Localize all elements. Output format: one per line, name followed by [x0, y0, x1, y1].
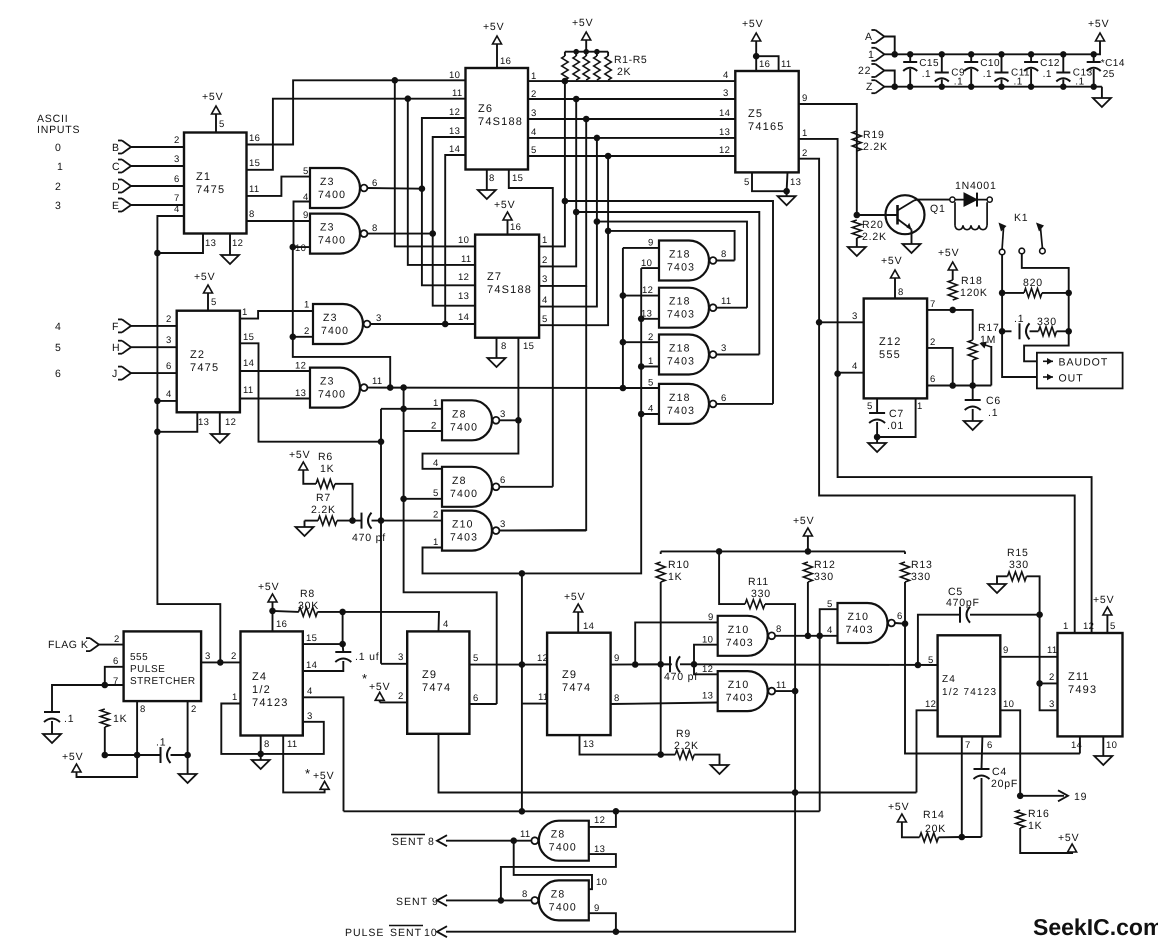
- junction netB sent: [519, 808, 526, 815]
- junction out11 column: [400, 384, 407, 391]
- text input bit 4: [55, 321, 62, 333]
- wire R7 left lead: [305, 520, 319, 522]
- svg-text:2: 2: [191, 704, 197, 715]
- junction R10 470pf: [657, 661, 664, 668]
- junction netB Z18b: [638, 316, 645, 323]
- svg-text:1: 1: [648, 356, 654, 367]
- wire netB to Z18d pin4: [641, 413, 659, 415]
- svg-text:13: 13: [295, 388, 306, 399]
- wire rail to R13: [904, 551, 906, 554]
- svg-text:12: 12: [719, 145, 730, 156]
- resistor 1K pulse stretcher: [100, 709, 127, 727]
- text input bit 5: [55, 342, 62, 354]
- junction R6/R7: [349, 517, 356, 524]
- wire netB to Z18b pin13: [641, 318, 659, 320]
- pin numbers Z10c: [827, 599, 903, 636]
- wire cap left lead 470pf shift: [635, 663, 670, 665]
- junction R8 cap tap: [339, 609, 346, 616]
- svg-text:330: 330: [1009, 559, 1029, 571]
- wire netA to Z18b pin12: [623, 295, 659, 297]
- wire +5V to Z2 pin5: [207, 293, 209, 311]
- svg-text:A: A: [865, 31, 873, 43]
- pin numbers Z10a: [433, 510, 506, 549]
- wire R7 to cap: [337, 520, 362, 522]
- wire R1 column to Z7 pin1: [539, 81, 565, 246]
- one-shot Z4 1/2 74123 right: [938, 635, 1001, 736]
- svg-text:8: 8: [501, 341, 507, 352]
- wire Z5 pin1 down: [799, 139, 1092, 633]
- wire data4 Z6-4 to Z5-13: [528, 137, 735, 139]
- flip-flop Z9 second: [547, 633, 611, 735]
- svg-text:.1: .1: [156, 737, 166, 749]
- svg-text:9: 9: [648, 238, 654, 249]
- resistor R16 1K: [1016, 808, 1050, 832]
- +5V supply Z12: [881, 255, 902, 278]
- junction R2 bottom: [573, 96, 580, 103]
- +5V supply pulse stretcher: [62, 751, 83, 772]
- wire Z10c pin5 tie: [820, 609, 838, 811]
- wire +5V to Z6 pin16: [496, 44, 498, 68]
- svg-text:7403: 7403: [667, 405, 695, 417]
- svg-text:5: 5: [542, 314, 548, 325]
- svg-text:Z18: Z18: [669, 296, 691, 308]
- wire R5 column to Z7 pin5: [539, 156, 608, 325]
- svg-text:R7: R7: [316, 492, 331, 504]
- svg-text:5: 5: [303, 166, 309, 177]
- wire Z3b out8 to column: [367, 233, 432, 235]
- +5V supply starred Z9a: [369, 681, 390, 700]
- svg-text:7400: 7400: [321, 325, 349, 337]
- wire Z9b pin8 to Z10c pin13: [611, 703, 718, 705]
- wire R11 to out11 column: [446, 604, 795, 932]
- arrow SENT 8: [437, 835, 447, 846]
- wire feedback column XL: [293, 247, 390, 388]
- junction sent set netB: [613, 808, 620, 815]
- junction R19/R20/Q1 base: [854, 212, 861, 219]
- junction 820 right: [1065, 290, 1072, 297]
- nand Z8a: [442, 400, 499, 440]
- text K1: [1014, 212, 1028, 224]
- wire Z10b out8: [775, 635, 837, 637]
- pin numbers Z5 left: [719, 70, 730, 156]
- wire Z6 pin12 column: [422, 118, 475, 285]
- svg-text:FLAG K: FLAG K: [48, 639, 88, 651]
- wire H to Z2 pin3: [131, 346, 177, 348]
- svg-text:12: 12: [1083, 621, 1094, 632]
- svg-text:30K: 30K: [298, 600, 319, 612]
- text input bit 2: [55, 181, 62, 193]
- svg-text:2: 2: [231, 651, 237, 662]
- wire strobe jog to Z8a pin1: [381, 408, 404, 410]
- wire column Z1-4 to Z2 and trigger: [157, 253, 220, 662]
- wire Z10b pin10: [694, 645, 718, 665]
- pin numbers Z6 right: [531, 71, 537, 156]
- svg-text:5: 5: [744, 177, 750, 188]
- wire R12 column: [807, 582, 809, 636]
- svg-text:5: 5: [867, 401, 873, 412]
- pin numbers Z6 left: [449, 70, 462, 155]
- wire Z1 pin13 to node: [157, 234, 203, 254]
- wire Z12 pin2 jog: [927, 348, 953, 386]
- svg-text:R19: R19: [863, 129, 885, 141]
- wire Z4R pin9 to Z11 pin11: [1000, 656, 1057, 658]
- resistor bank R1-R5 2K: [562, 49, 648, 80]
- text input bit 0: [55, 142, 62, 154]
- wire 820 right lead: [1042, 292, 1069, 294]
- svg-text:11: 11: [538, 692, 548, 703]
- wire Z6 pin15 to Z8b out column: [509, 170, 553, 487]
- wire E to Z1 pin7: [131, 204, 184, 206]
- flip-flop Z9 first: [407, 631, 469, 733]
- svg-text:7403: 7403: [726, 637, 754, 649]
- junction 820 left: [999, 290, 1006, 297]
- svg-text:Z18: Z18: [669, 249, 691, 261]
- svg-text:7400: 7400: [450, 421, 478, 433]
- wire Q1 base: [857, 214, 898, 216]
- svg-text:7400: 7400: [318, 189, 346, 201]
- svg-text:12: 12: [295, 361, 306, 372]
- wire C4 bottom: [981, 778, 983, 837]
- arrow output 19: [1058, 790, 1068, 801]
- svg-text:22: 22: [858, 65, 871, 77]
- wire cap to ground: [51, 721, 53, 730]
- junction shift node: [519, 661, 526, 668]
- svg-text:14: 14: [458, 312, 469, 323]
- resistor R6 1K: [316, 451, 335, 488]
- wire netA to Z18c pin2: [623, 341, 659, 343]
- capacitor 470pf shift: [664, 656, 698, 683]
- svg-text:16: 16: [276, 619, 287, 630]
- wire ground to R7: [304, 521, 306, 524]
- resistor R7 2.2K: [311, 492, 337, 525]
- svg-text:+5V: +5V: [564, 591, 585, 603]
- wire Z5 pin2 down: [799, 159, 1075, 633]
- svg-text:Z6: Z6: [478, 103, 493, 115]
- svg-text:4: 4: [542, 295, 548, 306]
- svg-text:+5V: +5V: [62, 751, 83, 763]
- svg-text:74S188: 74S188: [478, 116, 523, 128]
- wire Z4L pin1 bracket: [221, 704, 260, 754]
- transistor Q1: [886, 195, 946, 234]
- svg-text:2K: 2K: [617, 66, 631, 78]
- svg-text:3: 3: [376, 313, 382, 324]
- wire Z10a pin1 bracket: [423, 547, 443, 549]
- svg-text:Z8: Z8: [452, 475, 467, 487]
- svg-text:.1: .1: [1043, 69, 1052, 80]
- svg-text:5: 5: [928, 655, 934, 666]
- svg-text:7400: 7400: [318, 389, 346, 401]
- svg-text:+5V: +5V: [369, 681, 390, 693]
- wire Z1 pin16 to Z6 pin10: [247, 80, 466, 144]
- wire bottom rail to ground: [1101, 87, 1103, 95]
- svg-text:5: 5: [1110, 621, 1116, 632]
- wire cap to Z10a pin2: [372, 520, 443, 522]
- svg-text:74123: 74123: [252, 697, 289, 709]
- capacitor .1uf one-shot: [335, 651, 379, 663]
- pin numbers Z3d: [295, 361, 382, 400]
- wire R10 column: [660, 582, 662, 755]
- svg-text:E: E: [112, 200, 120, 212]
- junction 470pf right node: [691, 661, 698, 668]
- capacitor C6 .1: [965, 395, 1001, 419]
- wire Z9a pin3: [381, 663, 407, 665]
- svg-text:12: 12: [642, 285, 653, 296]
- svg-text:R1-R5: R1-R5: [614, 54, 647, 66]
- svg-text:1: 1: [433, 398, 439, 409]
- wire netB to Z18a pin10: [641, 267, 659, 269]
- wire R17 wiper to pin6 net: [990, 346, 992, 386]
- svg-text:R17: R17: [978, 322, 1000, 334]
- svg-text:7: 7: [965, 740, 971, 751]
- ground Z11: [1094, 753, 1112, 765]
- junction 330 branch left: [999, 328, 1006, 335]
- svg-text:11: 11: [1047, 645, 1057, 656]
- wire Z7 pin8 stub: [496, 338, 498, 352]
- svg-text:6: 6: [987, 740, 993, 751]
- pin numbers Z3c: [304, 300, 382, 338]
- svg-text:B: B: [112, 142, 120, 154]
- wire C7 bottom: [876, 422, 878, 437]
- wire column to Z7 pin10: [395, 80, 475, 246]
- svg-text:11: 11: [461, 254, 471, 265]
- svg-text:Z11: Z11: [1068, 671, 1090, 683]
- svg-text:11: 11: [776, 680, 786, 691]
- wire cap right to gates: [680, 663, 694, 665]
- svg-text:2: 2: [166, 314, 172, 325]
- wire 22 to rail: [884, 71, 894, 87]
- ground R20: [848, 244, 866, 256]
- svg-text:SENT: SENT: [390, 927, 422, 939]
- svg-text:Z2: Z2: [190, 349, 205, 361]
- +5V supply R14: [888, 801, 909, 822]
- svg-text:*C14: *C14: [1101, 58, 1125, 69]
- wire R15 right: [1027, 576, 1040, 614]
- input A: [865, 30, 884, 43]
- svg-text:1K: 1K: [1028, 820, 1042, 832]
- capacitor C5 470pF: [946, 586, 980, 623]
- svg-text:2: 2: [304, 326, 310, 337]
- junction 330 right: [1065, 328, 1072, 335]
- svg-text:12: 12: [232, 238, 243, 249]
- svg-text:SENT: SENT: [396, 896, 428, 908]
- wire Z2 pin14 to Z3d pin12: [240, 370, 310, 372]
- svg-text:4: 4: [433, 458, 439, 469]
- nand Z10c: [838, 603, 895, 643]
- svg-text:5: 5: [433, 488, 439, 499]
- svg-text:.1 uf: .1 uf: [355, 651, 379, 663]
- svg-text:16: 16: [249, 133, 260, 144]
- svg-text:12: 12: [702, 664, 713, 675]
- svg-text:Z12: Z12: [879, 336, 902, 348]
- junction Z1-4/13: [154, 250, 161, 257]
- wire 820 left lead: [1002, 292, 1024, 294]
- capacitor 470pf trigger: [352, 513, 386, 544]
- shift register Z5: [735, 71, 798, 172]
- svg-text:Z10: Z10: [728, 624, 750, 636]
- svg-text:6: 6: [473, 693, 479, 704]
- svg-text:Z5: Z5: [748, 108, 763, 120]
- wire Z3a pin4 tie: [294, 202, 311, 248]
- svg-text:15: 15: [523, 341, 534, 352]
- ground Z6 pin8: [478, 184, 496, 199]
- svg-text:14: 14: [583, 621, 594, 632]
- wire C to Z1 pin3: [131, 165, 184, 167]
- svg-text:R14: R14: [923, 809, 945, 821]
- wire Z1 pin8 to Z3b pin9: [247, 220, 311, 222]
- resistor R15 330: [1007, 547, 1029, 581]
- ground Q1 emitter: [903, 242, 921, 253]
- arrow PULSE SENT 10: [437, 926, 447, 937]
- svg-text:Z3: Z3: [323, 312, 338, 324]
- capacitor C4 20pF: [974, 766, 1019, 790]
- junction R1 bottom: [562, 78, 569, 85]
- svg-text:330: 330: [1037, 316, 1057, 328]
- junction SENT8 feedback: [510, 837, 517, 844]
- svg-text:R18: R18: [961, 275, 983, 287]
- junction strobe 470pf column: [378, 438, 385, 445]
- capacitor .1 contact filter: [1014, 313, 1030, 339]
- text star Z4L: [305, 766, 311, 781]
- junction pin2 pin6: [949, 382, 956, 389]
- capacitor C14: [1087, 51, 1125, 90]
- wire Z12 pin4: [838, 372, 864, 374]
- wire +5V to Z9b pin14: [577, 612, 579, 633]
- wire R17 bottom: [972, 360, 974, 386]
- svg-text:15: 15: [512, 173, 523, 184]
- wire Q1 emitter: [911, 230, 913, 243]
- pin numbers Z8c: [520, 815, 605, 855]
- svg-text:11: 11: [452, 88, 462, 99]
- wire pin7 to R17 top: [953, 310, 973, 340]
- wire Z4R pin7: [961, 736, 963, 837]
- wire F to Z2 pin2: [131, 325, 177, 327]
- +5V supply bottom rail: [793, 515, 814, 536]
- svg-text:13: 13: [198, 417, 209, 428]
- wire Z12 pin6 line: [927, 385, 991, 387]
- svg-text:12: 12: [225, 417, 236, 428]
- svg-text:2.2K: 2.2K: [311, 504, 336, 516]
- svg-text:Z3: Z3: [320, 222, 335, 234]
- wire K1 center contact staircase: [1022, 254, 1069, 361]
- svg-text:6: 6: [721, 393, 727, 404]
- wire Q1 collector: [914, 199, 952, 202]
- svg-text:1K: 1K: [113, 713, 127, 725]
- wire C6 top lead: [972, 386, 974, 401]
- input F: [112, 319, 131, 333]
- pin numbers Z8b: [433, 458, 506, 499]
- svg-text:10: 10: [449, 70, 460, 81]
- wire Z1 pin11 to Z3a pin5: [247, 177, 311, 196]
- wire Z3c pin2: [293, 336, 313, 338]
- wire Z9b pin13 bottom: [580, 735, 661, 755]
- wire sent set line: [344, 810, 820, 812]
- junction R13 out6: [902, 620, 909, 627]
- svg-text:2: 2: [542, 255, 548, 266]
- wire bottom rail right: [171, 754, 188, 756]
- svg-text:2: 2: [431, 421, 437, 432]
- svg-text:8: 8: [264, 739, 270, 750]
- input Z: [866, 80, 884, 93]
- svg-text:9: 9: [303, 210, 309, 221]
- svg-text:Z10: Z10: [452, 519, 474, 531]
- pin numbers Z1 right/top/bottom: [205, 119, 260, 249]
- ground Z2 pin12: [211, 428, 229, 443]
- resistor R10 1K: [656, 559, 689, 583]
- resistor R20 2.2K: [852, 219, 887, 243]
- svg-text:+5V: +5V: [742, 18, 763, 30]
- nand Z8d sent9: [531, 880, 588, 920]
- text SENT 8: [391, 835, 435, 849]
- svg-text:9: 9: [614, 653, 620, 664]
- wire PS pin8 stub: [136, 701, 138, 755]
- svg-text:4: 4: [531, 127, 537, 138]
- wire Z4L pin4 to sent line: [303, 697, 344, 811]
- junction Z3a-6: [419, 185, 426, 192]
- wire SENT8 feedback: [514, 841, 592, 890]
- svg-text:2: 2: [1049, 672, 1055, 683]
- wire Z4R pin6 to C4: [981, 736, 984, 769]
- junction rail R11: [716, 548, 723, 555]
- svg-text:330: 330: [814, 571, 834, 583]
- wire netB column lower: [521, 573, 523, 811]
- resistor R13 330: [901, 559, 933, 583]
- pin numbers pulse stretcher: [113, 634, 211, 715]
- capacitor C11: [995, 51, 1031, 90]
- wire Z2 pin13 to node: [157, 412, 197, 432]
- svg-text:11: 11: [520, 829, 530, 840]
- svg-text:Z18: Z18: [669, 343, 691, 355]
- wire R15 left to ground: [997, 576, 1008, 582]
- svg-text:5: 5: [55, 342, 62, 354]
- watermark SeekIC.com: [1033, 914, 1158, 940]
- junction Z8a pin1: [400, 406, 407, 413]
- svg-text:Z8: Z8: [452, 408, 467, 420]
- svg-text:+5V: +5V: [938, 247, 959, 259]
- text SENT 9: [396, 896, 439, 908]
- svg-text:R12: R12: [814, 559, 836, 571]
- svg-text:R11: R11: [748, 576, 769, 588]
- svg-text:3: 3: [500, 409, 506, 420]
- svg-text:3: 3: [531, 108, 537, 119]
- pin numbers Z1 left: [174, 135, 180, 215]
- wire +5V to Z4L pin16: [272, 602, 274, 631]
- resistor R14 20K: [920, 809, 947, 842]
- pin numbers Z7 left: [458, 235, 471, 323]
- svg-text:3: 3: [852, 311, 858, 322]
- svg-text:12: 12: [594, 815, 605, 826]
- svg-text:.1: .1: [64, 713, 74, 725]
- nand Z18c: [659, 335, 716, 375]
- wire Z1 pin15 to Z6 pin11: [247, 99, 466, 170]
- resistor R18 120K: [948, 275, 988, 300]
- input B: [112, 141, 131, 155]
- pin numbers Z11: [1047, 621, 1117, 751]
- svg-text:SeekIC.com: SeekIC.com: [1033, 914, 1158, 940]
- junction pulse sent: [613, 928, 620, 935]
- svg-text:Z: Z: [866, 81, 873, 93]
- +5V supply cap bank: [1088, 18, 1109, 41]
- pin numbers Z12: [852, 287, 936, 412]
- wire R20 to ground: [856, 238, 858, 244]
- pin numbers Z10b: [702, 612, 782, 646]
- wire cap left lead: [1002, 330, 1011, 332]
- wire Z2 pin4 to column: [157, 400, 176, 402]
- svg-text:5: 5: [473, 653, 479, 664]
- svg-text:K1: K1: [1014, 212, 1028, 224]
- junction rail Z: [891, 83, 898, 90]
- svg-text:R9: R9: [676, 728, 691, 740]
- wire Z18a out8 stub: [716, 260, 734, 262]
